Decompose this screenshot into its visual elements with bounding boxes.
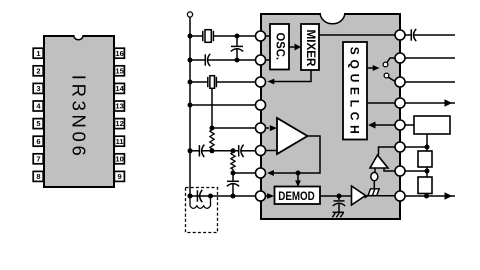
node J2	[337, 194, 342, 199]
DIP pin 4	[33, 101, 43, 111]
node R10	[425, 169, 430, 174]
wire input rail	[189, 17, 191, 196]
svg-text:12: 12	[115, 119, 123, 128]
DIP pin 11	[114, 136, 124, 146]
wire pin6 to A1	[265, 150, 277, 152]
DIP pin 9	[114, 171, 124, 181]
svg-text:13: 13	[115, 102, 123, 111]
svg-text:16: 16	[115, 49, 123, 58]
DIP pin 8	[33, 171, 43, 181]
ground G2 (hatch)	[332, 212, 344, 217]
discriminator dashed box	[186, 188, 218, 233]
capacitor C5 after pin16	[405, 29, 455, 41]
DIP pin 16	[114, 48, 124, 58]
svg-text:DEMOD: DEMOD	[278, 189, 315, 203]
IC pin 13	[395, 98, 405, 108]
IC pin 15	[395, 53, 405, 63]
node B2a	[235, 58, 240, 63]
wire A1 output feedback to pin7	[274, 136, 321, 173]
resistor R1	[210, 128, 214, 151]
resistor box RB1	[418, 151, 432, 167]
svg-text:10: 10	[115, 154, 123, 163]
capacitor C7 to ground	[333, 196, 345, 212]
wire pin15 out	[405, 57, 455, 59]
arrow SQUELCH to switch	[367, 65, 380, 71]
node rail-2	[188, 58, 193, 63]
DIP pin 12	[114, 119, 124, 129]
DIP pin 2	[33, 66, 43, 76]
wire crystal X2 down	[211, 88, 213, 128]
wire branch6 right	[241, 150, 256, 152]
node rail-8	[188, 194, 193, 199]
trimmer capacitor CT2	[205, 54, 210, 66]
node T1	[188, 194, 193, 199]
DIP pin 1	[33, 48, 43, 58]
wire RB2 down	[426, 194, 428, 197]
node rail-6	[188, 148, 193, 153]
svg-text:OSC.: OSC.	[274, 33, 286, 61]
resistor box RB2	[418, 177, 432, 194]
switch S1 contact to pin14	[384, 73, 396, 82]
switch S1 blade from pin15	[383, 58, 395, 67]
wire pin11 to A2 apex	[379, 147, 397, 155]
svg-text:8: 8	[36, 172, 40, 181]
IC pin 7	[256, 168, 266, 178]
wire pin11 out	[405, 146, 427, 148]
wire branch6 mid	[202, 150, 239, 152]
wire RB1 down	[426, 167, 428, 177]
node B5a	[210, 126, 215, 131]
antenna terminal	[187, 12, 192, 17]
wire branch3 left	[190, 81, 208, 83]
node rail-1	[188, 34, 193, 39]
wire branch2 right	[208, 59, 256, 61]
DIP pin 10	[114, 154, 124, 164]
crystal X1	[203, 30, 214, 43]
wire DEMOD output	[320, 195, 352, 197]
arrow OSC to MIXER	[289, 44, 301, 51]
DIP pin 3	[33, 83, 43, 93]
ground G1 (hatch)	[365, 189, 380, 198]
op-amp A3 (audio amp)	[352, 186, 366, 205]
node B6b	[231, 148, 236, 153]
wire branch6 left	[190, 150, 199, 152]
svg-text:7: 7	[36, 154, 40, 163]
node B7a	[231, 171, 236, 176]
DIP pin 13	[114, 101, 124, 111]
IC pin 14	[395, 77, 405, 87]
wire pin12 to filter	[405, 124, 414, 126]
DIP pin 7	[33, 154, 43, 164]
capacitor C3 (vertical)	[227, 173, 239, 196]
capacitor C1	[199, 145, 204, 157]
node R11	[425, 145, 430, 150]
wire SQUELCH to pin13	[367, 102, 396, 104]
DIP pin 5	[33, 119, 43, 129]
node rail-3	[188, 80, 193, 85]
svg-text:MIXER: MIXER	[304, 30, 316, 68]
svg-text:9: 9	[118, 172, 122, 181]
mixer block MIXER	[301, 24, 319, 70]
demodulator block DEMOD	[275, 187, 321, 205]
wire pin2 to OSC	[265, 59, 270, 61]
IC pin 1	[256, 31, 266, 41]
wire branch3 right	[216, 81, 256, 83]
wire pin5 to A1 input with arrow	[265, 125, 277, 131]
IC pin 5	[256, 123, 266, 133]
wire branch1 left	[190, 35, 203, 37]
op-amp A1 (IF limiter amplifier)	[277, 118, 308, 154]
wire branch8	[190, 195, 256, 197]
node rail-4	[188, 103, 193, 108]
wire branch4	[190, 104, 256, 106]
node B8a	[231, 194, 236, 199]
filter FL1	[414, 116, 450, 134]
IC pin 12	[395, 120, 405, 130]
svg-text:15: 15	[115, 66, 123, 75]
svg-text:3: 3	[36, 84, 40, 93]
IC U1 body (application circuit)	[261, 13, 400, 219]
wire pin12 to SQUELCH with arrow	[368, 122, 396, 129]
wire A3 output to pin9	[366, 195, 397, 197]
wire branch2 left	[190, 59, 205, 61]
node R9	[424, 194, 429, 199]
capacitor C4 (in dashed box)	[197, 190, 202, 202]
IC pin 3	[256, 77, 266, 87]
svg-text:11: 11	[116, 137, 124, 146]
DIP pin 14	[114, 83, 124, 93]
svg-text:14: 14	[115, 84, 124, 93]
trimmer capacitor CT1 (vertical)	[231, 36, 243, 60]
wire pin10 out	[405, 170, 427, 172]
wire FL1 down	[426, 134, 428, 151]
bias source B1	[371, 168, 378, 189]
wire J1 down into DEMOD with arrow	[295, 173, 301, 187]
IC pin 9	[395, 191, 405, 201]
crystal X2	[208, 76, 217, 89]
svg-text:5: 5	[36, 119, 40, 128]
IC pin 8	[256, 191, 266, 201]
svg-text:1: 1	[36, 49, 40, 58]
svg-text:6: 6	[36, 137, 40, 146]
op-amp A2 (meter driver, points up)	[370, 155, 388, 168]
wire pin10 to A2 base	[384, 168, 396, 171]
wire branch5	[212, 127, 256, 129]
IC pin 16	[395, 30, 405, 40]
DIP pin 15	[114, 66, 124, 76]
IC pin 4	[256, 100, 266, 110]
node J1 on feedback wire	[296, 171, 301, 176]
wire pin9 out with arrow	[405, 192, 455, 200]
resistor R2	[231, 151, 235, 173]
squelch block SQUELCH	[343, 42, 367, 140]
node B6a	[210, 148, 215, 153]
IC package IR3N06 (DIP-16 body)	[44, 35, 114, 187]
wire pin14 out	[405, 81, 455, 83]
IC pin 10	[395, 166, 405, 176]
IC pin 6	[256, 146, 266, 156]
wire pin1 to OSC	[265, 35, 270, 37]
arrowhead into pin7	[267, 170, 274, 176]
wire MIXER down to pin3 with arrow	[267, 70, 311, 84]
DIP pin 6	[33, 136, 43, 146]
node B1a	[235, 34, 240, 39]
wire MIXER to pin16	[319, 34, 396, 36]
capacitor C2	[239, 145, 244, 157]
wire branch1 right	[213, 35, 256, 37]
wire pin13 out with arrow	[405, 99, 455, 107]
svg-text:2: 2	[36, 66, 40, 75]
oscillator block OSC.	[270, 24, 289, 70]
IC pin 11	[395, 142, 405, 152]
inductor L1	[190, 196, 211, 208]
wire branch7	[233, 172, 256, 174]
IC pin 2	[256, 55, 266, 65]
node T2	[208, 194, 213, 199]
wire pin8 into DEMOD with arrow	[266, 193, 275, 199]
